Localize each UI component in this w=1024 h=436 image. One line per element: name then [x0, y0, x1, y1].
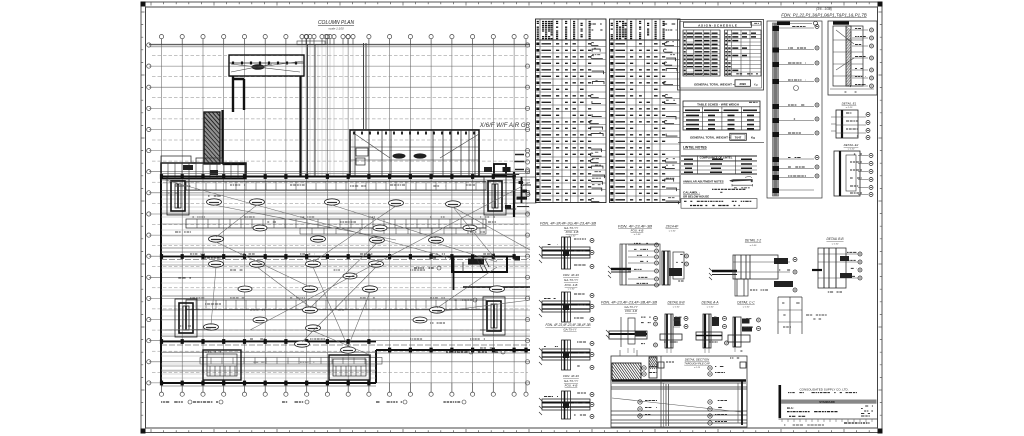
cross detail 4	[539, 391, 594, 419]
labels right of plan step	[414, 266, 505, 354]
heavy beam line y341	[161, 341, 376, 343]
grid bubbles right column	[525, 43, 529, 385]
total row A	[694, 80, 758, 87]
cross detail 3	[539, 340, 594, 370]
column grid lines	[149, 45, 530, 383]
svg-text:THROUGH PILE CAP: THROUGH PILE CAP	[684, 362, 710, 366]
svg-text:w 1:50: w 1:50	[673, 307, 680, 309]
pile elevation strip	[767, 21, 822, 198]
pile cap detail D1 top right	[828, 21, 877, 95]
title block	[779, 385, 878, 425]
east bubble labels	[515, 155, 525, 170]
separator line	[678, 142, 764, 144]
grid centrelines dashed	[152, 56, 528, 373]
svg-text:scale 1:100: scale 1:100	[328, 27, 344, 31]
heavy wall L	[233, 76, 244, 112]
svg-text:FDN. 4F-33: FDN. 4F-33	[563, 374, 579, 378]
pilaster detail SW	[175, 299, 197, 337]
svg-text:FOU. 4-B: FOU. 4-B	[565, 283, 578, 287]
heavy wall right of shear wall	[223, 76, 301, 176]
sheet border frame	[141, 2, 883, 434]
designed block	[681, 189, 757, 208]
main floor outline	[161, 177, 530, 384]
detail F1	[606, 317, 658, 348]
secondary beam lines	[161, 183, 530, 378]
detail E1 pile cap section	[608, 243, 689, 287]
svg-text:DETAIL 2-2: DETAIL 2-2	[745, 239, 762, 243]
svg-text:3090: 3090	[739, 82, 746, 86]
svg-text:Kg: Kg	[754, 82, 758, 86]
svg-text:FDN. 4F-33: FDN. 4F-33	[563, 273, 579, 277]
lintel notes heading	[683, 146, 708, 150]
svg-text:DETAIL E2: DETAIL E2	[844, 143, 859, 147]
dimension stubs below middle details	[628, 347, 735, 353]
stair core 1	[203, 350, 241, 380]
east wall and lift detail	[503, 167, 520, 217]
shear wall hatched	[192, 112, 236, 166]
svg-text:GA-TX-YY: GA-TX-YY	[564, 379, 579, 383]
detail 2-2 title	[745, 239, 762, 248]
detail E1 titles	[618, 225, 679, 237]
rebar schedule table 2	[610, 19, 681, 204]
cross detail 2	[539, 292, 594, 322]
beam band row1	[186, 182, 486, 191]
svg-text:FOU. 4-B: FOU. 4-B	[631, 229, 644, 233]
extra beam tag ovals	[238, 225, 477, 323]
detail F3	[696, 314, 729, 348]
pilaster detail SE	[483, 297, 505, 335]
foundation section detail	[600, 356, 747, 427]
svg-text:COLUMN PLAN: COLUMN PLAN	[318, 20, 355, 26]
svg-text:w 1:20: w 1:20	[846, 107, 853, 109]
detail B-B title	[826, 237, 844, 246]
west wing band	[161, 156, 246, 179]
cross detail 1	[539, 237, 594, 269]
svg-text:BLA :: BLA :	[787, 406, 794, 410]
extra beam labels	[168, 185, 495, 362]
svg-text:CONSOLIDATED SUPPLY CO. LTD.: CONSOLIDATED SUPPLY CO. LTD.	[799, 388, 848, 392]
svg-text:7047: 7047	[735, 135, 742, 139]
svg-text:DETAIL A-A: DETAIL A-A	[702, 301, 719, 305]
detail F2	[660, 314, 688, 348]
svg-text:DETAIL C-C: DETAIL C-C	[737, 301, 755, 305]
grid bubbles top row	[159, 35, 528, 46]
label X/6/F W/F AIR GR	[479, 122, 531, 129]
top frame double line	[149, 43, 530, 45]
grid cluster lines	[302, 45, 353, 176]
svg-text:LINTEL NOTES: LINTEL NOTES	[683, 146, 708, 150]
svg-text:GENERAL TOTAL WEIGHT =: GENERAL TOTAL WEIGHT =	[694, 82, 735, 86]
cross detail joints	[563, 250, 569, 408]
span diagonals	[165, 180, 530, 355]
detail column titles 1	[540, 222, 597, 238]
beam band row3	[186, 300, 486, 310]
svg-text:FDN. P1,22,P1,3&P1,0&P1,T&P1,1: FDN. P1,22,P1,3&P1,0&P1,T&P1,1&,P1,7B	[781, 13, 866, 18]
grid bubbles left column	[147, 43, 151, 385]
svg-text:GENERAL TOTAL WEIGHT =: GENERAL TOTAL WEIGHT =	[690, 136, 731, 140]
plan title COLUMN PLAN	[318, 20, 355, 31]
svg-text:ANNULAR ABUTMENT NOTES: ANNULAR ABUTMENT NOTES	[683, 180, 724, 184]
pile cap detail D3 right	[834, 143, 873, 197]
cluster leader box	[297, 41, 325, 45]
svg-text:23/14-4F: 23/14-4F	[665, 225, 680, 229]
beam tag ovals	[204, 199, 505, 353]
machine room block east	[452, 256, 530, 290]
pilaster detail NW	[167, 177, 189, 215]
weight schedule A (ASIGN)	[678, 20, 764, 91]
total row B	[690, 133, 755, 140]
pilaster detail NE	[484, 177, 506, 215]
svg-text:w 1:50: w 1:50	[568, 289, 575, 291]
upper building block	[229, 55, 304, 76]
svg-text:Kg: Kg	[751, 136, 755, 140]
grid bubbles bottom row	[159, 383, 528, 396]
pile legend table	[778, 297, 827, 334]
svg-text:FDN. 4F-23,4F-23,4F-3B,4F-3B: FDN. 4F-23,4F-23,4F-3B,4F-3B	[546, 323, 592, 327]
svg-text:DETAIL B-B: DETAIL B-B	[826, 237, 844, 241]
beam band row2	[186, 219, 486, 234]
svg-text:TABLE SCHED - WRE WEIGH: TABLE SCHED - WRE WEIGH	[697, 102, 739, 106]
plan leader labels	[175, 186, 496, 352]
svg-text:A S I G N - S C H E D U L E: A S I G N - S C H E D U L E	[698, 23, 737, 27]
plant room block	[350, 130, 479, 176]
annular notes + arrow	[683, 176, 753, 188]
svg-text:w 1:50: w 1:50	[669, 231, 676, 233]
lift core square	[484, 164, 506, 175]
lintel table	[681, 155, 757, 174]
svg-text:w 1:20: w 1:20	[848, 149, 855, 151]
svg-text:FOU. 4-B: FOU. 4-B	[566, 230, 579, 234]
beam band row4	[200, 358, 382, 365]
svg-text:w 1:50: w 1:50	[743, 307, 750, 309]
sheet title FDN PILE CAPS	[781, 7, 866, 18]
column marks on beams	[160, 174, 528, 385]
pile cap detail D2 right	[831, 102, 870, 140]
labels under plan	[161, 400, 466, 404]
svg-text:w 1:50: w 1:50	[750, 245, 757, 247]
svg-text:w 1:50: w 1:50	[832, 244, 839, 246]
svg-text:(3/6 - 1/3B): (3/6 - 1/3B)	[816, 7, 832, 11]
svg-text:STANDARD: STANDARD	[819, 400, 835, 404]
rebar schedule table 1	[536, 19, 607, 203]
svg-text:w 1:50: w 1:50	[707, 307, 714, 309]
svg-text:w 1:25: w 1:25	[694, 367, 701, 369]
svg-text:DETAIL E1: DETAIL E1	[842, 102, 857, 106]
stair shaft detail box	[515, 177, 536, 207]
svg-text:GA-TX-YY: GA-TX-YY	[564, 278, 579, 282]
detail 2-2	[709, 255, 797, 296]
stair core 2	[329, 355, 370, 380]
svg-text:DETAIL B-B: DETAIL B-B	[667, 301, 685, 305]
svg-text:FDN. 4F-3F,4F-3G,4F-23,4F-3B: FDN. 4F-3F,4F-3G,4F-23,4F-3B	[540, 222, 597, 226]
svg-text:FOU. 4-B: FOU. 4-B	[565, 384, 578, 388]
svg-text:DETAIL SECTION: DETAIL SECTION	[685, 358, 710, 362]
cross detail 3 titles	[563, 374, 579, 388]
svg-text:FDN. 4F-23,4F-23,4F-3B,4F-3B: FDN. 4F-23,4F-23,4F-3B,4F-3B	[601, 301, 658, 305]
heavy beam line y256	[161, 256, 516, 258]
weight schedule B	[683, 101, 760, 130]
svg-text:X/6/F W/F AIR GR: X/6/F W/F AIR GR	[479, 122, 531, 129]
detail F4	[728, 317, 761, 351]
svg-text:w 1:50: w 1:50	[634, 234, 641, 236]
detail B-B	[812, 248, 862, 292]
svg-text:GA-TX-YY: GA-TX-YY	[563, 328, 577, 332]
svg-text:FOU. 4-B: FOU. 4-B	[625, 309, 637, 313]
svg-text:OR BELOW HOUSE: OR BELOW HOUSE	[683, 194, 709, 198]
detail column titles 2	[546, 323, 592, 332]
middle row titles	[601, 301, 755, 314]
grid stubs above foundation detail	[620, 350, 637, 356]
cross detail 1 titles	[563, 273, 579, 291]
